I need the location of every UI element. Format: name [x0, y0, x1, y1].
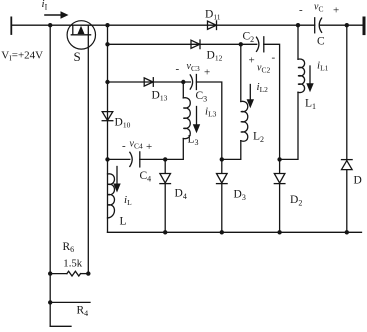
node C3 left junction: [181, 80, 185, 84]
node D branch top: [345, 23, 349, 27]
node bottom D: [345, 230, 349, 234]
svg-text:vC4: vC4: [130, 139, 143, 151]
svg-text:iL1: iL1: [317, 60, 329, 73]
svg-text:-: -: [272, 52, 276, 64]
svg-text:D12: D12: [207, 50, 223, 63]
wire main vertical (drain node): [107, 25, 109, 232]
diode D12: [191, 40, 200, 49]
diode D: [342, 160, 353, 170]
svg-text:vC: vC: [314, 2, 323, 14]
svg-text:+: +: [146, 141, 152, 153]
capacitor C3: [190, 75, 196, 90]
diode D13: [144, 78, 153, 87]
arrow i_L1: [306, 66, 313, 92]
svg-text:+: +: [204, 67, 210, 79]
node D2 top: [277, 157, 281, 161]
source terminal bar V_I: [10, 17, 12, 34]
inductor L: [108, 174, 115, 218]
svg-text:VI=+24V: VI=+24V: [1, 50, 43, 63]
svg-text:S: S: [74, 49, 81, 64]
wire segment D3-L2: [222, 141, 241, 160]
arrow i_L3: [193, 107, 200, 134]
wire C4 row: [108, 158, 130, 160]
svg-text:D3: D3: [234, 189, 246, 203]
svg-text:R4: R4: [77, 305, 89, 319]
wire rail 2 left part: [108, 43, 257, 45]
wire C2 right to corner and down: [264, 44, 280, 159]
diode D4: [160, 159, 171, 232]
node at top rail: [105, 23, 109, 27]
node at rail 3: [105, 80, 109, 84]
wire segment D2-L1: [280, 92, 298, 159]
capacitor C4: [130, 152, 140, 167]
diode D2: [274, 159, 285, 232]
node R6 right: [86, 271, 90, 275]
svg-text:iI: iI: [42, 0, 48, 11]
node C2 left junction: [239, 42, 243, 46]
arrow i_I: [45, 11, 69, 18]
node L1 top: [296, 23, 300, 27]
wire bottom rail: [108, 231, 362, 233]
node R6 left: [48, 271, 52, 275]
svg-text:L1: L1: [305, 98, 316, 112]
svg-text:C: C: [317, 36, 325, 48]
diode D3: [217, 159, 228, 232]
inductor L1: [298, 25, 305, 92]
wire C3 right to corner and down: [196, 82, 221, 159]
inductor L3: [183, 82, 190, 139]
resistor R6: [50, 271, 88, 276]
svg-text:D2: D2: [290, 194, 302, 208]
arrow i_L2: [247, 85, 254, 109]
wire D branch vertical: [346, 25, 348, 232]
svg-text:C3: C3: [196, 90, 208, 104]
wire top rail: [11, 24, 314, 26]
wire R4: [50, 301, 90, 303]
svg-text:+: +: [333, 5, 339, 17]
svg-text:iL3: iL3: [205, 106, 217, 119]
capacitor C2: [257, 37, 264, 52]
svg-text:C4: C4: [140, 170, 152, 184]
svg-text:iL: iL: [124, 194, 132, 207]
diode D11: [208, 21, 217, 30]
svg-text:R6: R6: [63, 241, 75, 254]
node R4 left: [48, 300, 52, 304]
svg-text:C2: C2: [243, 31, 255, 45]
node bottom D4: [163, 230, 167, 234]
arrow i_L: [113, 167, 120, 193]
node at rail 2: [105, 42, 109, 46]
wire rail 3 left part: [108, 81, 191, 83]
svg-text:D11: D11: [205, 9, 221, 22]
node bottom D3: [220, 230, 224, 234]
transistor S (MOSFET in circle): [67, 21, 95, 49]
inductor L2: [241, 44, 248, 141]
node D3 top: [220, 157, 224, 161]
diode D10: [102, 112, 113, 121]
svg-text:L3: L3: [188, 134, 199, 148]
svg-text:L2: L2: [253, 131, 264, 145]
svg-text:L: L: [120, 216, 127, 228]
svg-text:D: D: [354, 175, 362, 187]
svg-text:D10: D10: [115, 117, 131, 130]
node D4 top: [163, 157, 167, 161]
load terminal bar right: [363, 18, 366, 34]
wire source vertical of S: [87, 35, 89, 274]
wire left vertical from input node: [49, 25, 51, 326]
node input junction: [48, 23, 52, 27]
wire C4 right to L3 corner: [140, 139, 184, 160]
svg-text:D13: D13: [152, 90, 168, 103]
svg-text:D4: D4: [175, 188, 187, 202]
capacitor C: [315, 18, 322, 33]
wire bottom left corner: [50, 325, 71, 327]
svg-text:vC2: vC2: [257, 63, 270, 75]
node bottom D2: [277, 230, 281, 234]
svg-text:-: -: [299, 4, 303, 16]
svg-text:+: +: [249, 55, 255, 67]
svg-text:1.5k: 1.5k: [63, 257, 82, 269]
svg-text:-: -: [122, 140, 126, 152]
svg-text:vC3: vC3: [187, 61, 200, 73]
svg-text:iL2: iL2: [257, 81, 269, 94]
svg-text:-: -: [176, 63, 180, 75]
node at C4 wire: [105, 157, 109, 161]
